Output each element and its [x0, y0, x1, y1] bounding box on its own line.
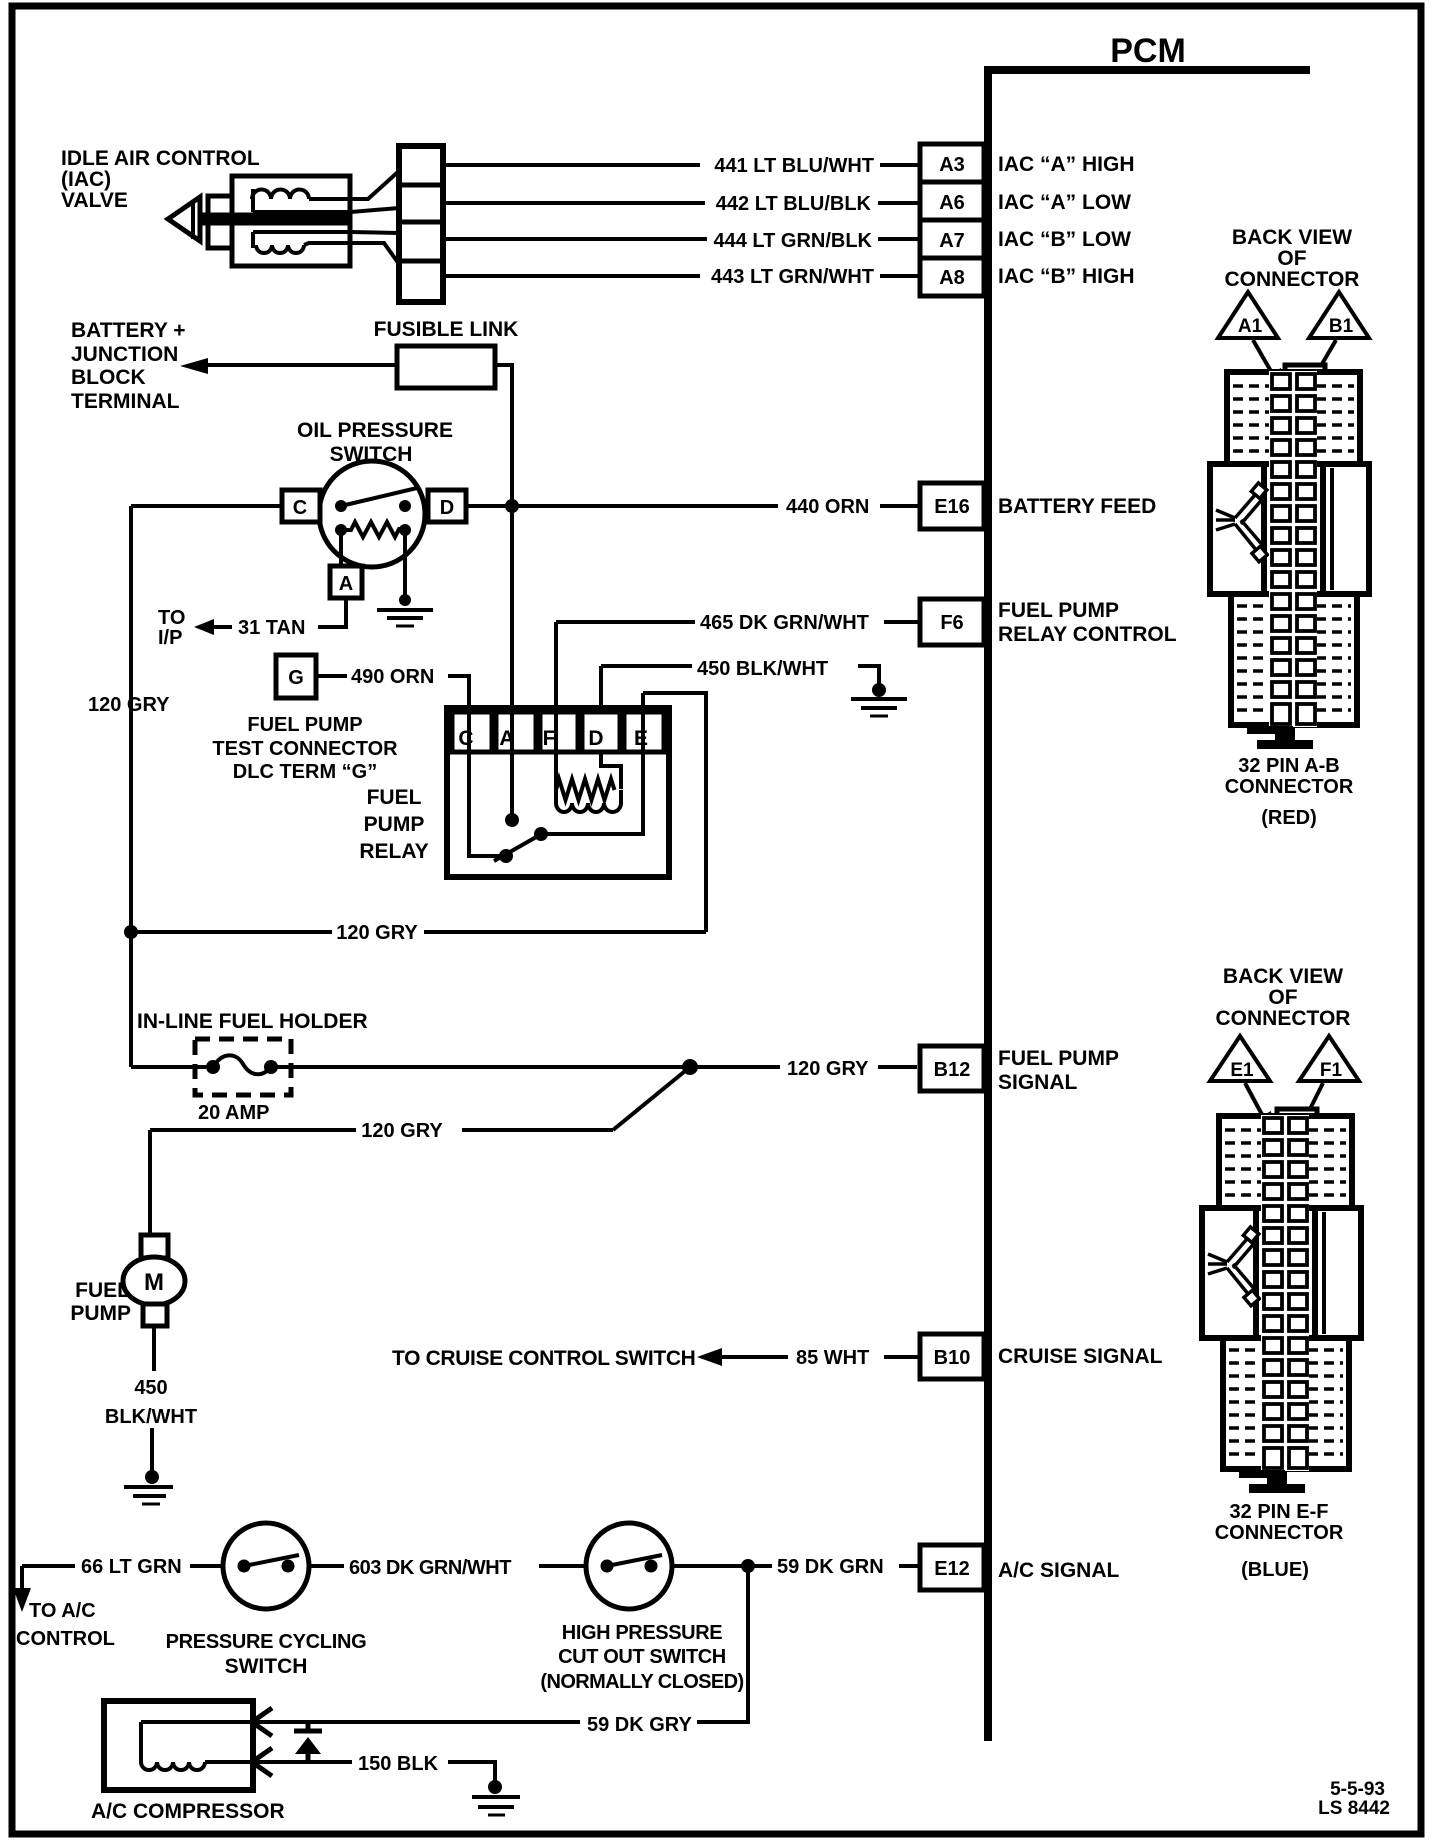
battery junction label — [71, 319, 186, 413]
compressor arrowhead upper — [252, 1708, 272, 1736]
wire 603 DK GRN/WHT — [309, 1564, 586, 1568]
svg-text:HIGH PRESSURE: HIGH PRESSURE — [562, 1622, 722, 1644]
wire A to 31 TAN — [318, 598, 346, 627]
svg-text:OF: OF — [1268, 986, 1297, 1009]
svg-text:CONNECTOR: CONNECTOR — [1225, 776, 1354, 798]
callout triangle B1 — [1309, 292, 1369, 338]
svg-text:120 GRY: 120 GRY — [361, 1120, 443, 1142]
svg-text:BATTERY FEED: BATTERY FEED — [998, 495, 1156, 518]
wire body to connector cell3 — [253, 232, 399, 248]
svg-text:D: D — [588, 727, 603, 750]
svg-text:59 DK GRY: 59 DK GRY — [587, 1714, 693, 1736]
svg-text:5-5-93: 5-5-93 — [1330, 1779, 1385, 1800]
callout triangle E1 — [1210, 1036, 1270, 1081]
svg-text:TERMINAL: TERMINAL — [71, 390, 180, 413]
wire 444 — [443, 237, 920, 241]
svg-text:BLOCK: BLOCK — [71, 366, 146, 389]
svg-text:443 LT GRN/WHT: 443 LT GRN/WHT — [711, 266, 874, 288]
svg-text:D: D — [440, 497, 454, 519]
svg-text:440 ORN: 440 ORN — [786, 496, 869, 518]
relay terminal A — [496, 712, 536, 752]
fuse element — [206, 1055, 278, 1074]
svg-text:RELAY: RELAY — [359, 840, 428, 863]
svg-text:450: 450 — [134, 1377, 167, 1399]
svg-text:B12: B12 — [934, 1059, 971, 1081]
wire 443 — [443, 274, 920, 278]
IAC valve pintle cone — [168, 197, 200, 241]
label high pressure cut out switch — [540, 1622, 743, 1693]
high pressure cut out switch — [586, 1523, 672, 1609]
wire 120 GRY to fuel pump — [150, 1130, 613, 1235]
arrow A1 to pin — [1253, 340, 1283, 393]
wire A into relay — [510, 506, 514, 820]
svg-text:A3: A3 — [939, 154, 965, 176]
wire 59 DK GRN to E12 — [899, 1564, 920, 1568]
svg-text:IN-LINE FUEL HOLDER: IN-LINE FUEL HOLDER — [137, 1010, 368, 1033]
wire 440 ORN — [466, 504, 920, 508]
svg-text:120 GRY: 120 GRY — [787, 1058, 869, 1080]
label fuel pump test connector — [212, 714, 398, 783]
svg-text:VALVE: VALVE — [61, 189, 128, 212]
svg-text:SIGNAL: SIGNAL — [998, 1071, 1078, 1094]
wire to pressure cycling switch — [190, 1564, 223, 1568]
wire 66 LT GRN with down arrow — [13, 1566, 75, 1612]
in-line fuel holder dashed box — [195, 1039, 291, 1095]
svg-text:FUEL PUMP: FUEL PUMP — [998, 1047, 1119, 1070]
left rail 120 GRY — [129, 506, 133, 1067]
node dot left rail — [124, 925, 138, 939]
wire 465 into F — [554, 622, 558, 789]
wire to terminal A — [339, 530, 343, 567]
svg-text:TO: TO — [158, 607, 185, 629]
arrow F1 to pin — [1297, 1083, 1323, 1132]
svg-text:I/P: I/P — [158, 627, 182, 649]
oil pressure switch label — [297, 419, 453, 466]
wire 441 — [443, 163, 920, 167]
relay terminal F — [540, 712, 578, 752]
svg-text:CONNECTOR: CONNECTOR — [1225, 268, 1360, 291]
pin B10 — [920, 1334, 984, 1379]
label fuel pump signal — [998, 1047, 1119, 1094]
svg-text:66 LT GRN: 66 LT GRN — [81, 1556, 182, 1578]
fuel pump motor — [123, 1235, 185, 1326]
pin E16 — [920, 483, 984, 529]
svg-text:120 GRY: 120 GRY — [336, 922, 418, 944]
ground 150 BLK — [472, 1780, 520, 1815]
relay terminal E — [624, 712, 664, 752]
svg-text:FUEL PUMP: FUEL PUMP — [998, 599, 1119, 622]
label fuel pump relay control — [998, 599, 1177, 646]
label fuel pump relay — [359, 786, 428, 863]
wire 465 DK GRN/WHT — [556, 620, 920, 624]
wire 490 ORN to relay C — [448, 676, 504, 856]
fusible link box — [397, 346, 495, 388]
wire G to 490 ORN — [316, 674, 347, 678]
IAC connector block — [399, 146, 443, 302]
svg-text:IAC “B” LOW: IAC “B” LOW — [998, 228, 1131, 251]
pressure cycling switch — [223, 1523, 309, 1609]
wire 450 into D — [599, 666, 603, 712]
label 32 pin A-B connector — [1225, 755, 1354, 829]
svg-text:BLK/WHT: BLK/WHT — [105, 1406, 197, 1428]
wire coil A to connector — [309, 171, 399, 199]
date code — [1318, 1779, 1390, 1819]
svg-text:F: F — [543, 727, 556, 750]
wire fusible link to node — [495, 365, 512, 708]
svg-text:CRUISE SIGNAL: CRUISE SIGNAL — [998, 1345, 1163, 1368]
sender resistor — [335, 522, 411, 537]
svg-text:(IAC): (IAC) — [61, 168, 111, 191]
svg-text:TO CRUISE CONTROL SWITCH: TO CRUISE CONTROL SWITCH — [392, 1347, 696, 1370]
svg-text:PUMP: PUMP — [364, 813, 425, 836]
PCM boundary line — [984, 66, 1310, 1741]
wire D to coil — [601, 752, 621, 789]
svg-text:A7: A7 — [939, 230, 965, 252]
label to A/C control — [16, 1600, 115, 1650]
svg-text:31 TAN: 31 TAN — [238, 617, 305, 639]
32 pin A-B connector (red) — [1210, 365, 1369, 749]
pin A7 — [920, 220, 984, 258]
terminal C — [282, 490, 320, 522]
wire main fuel feed — [131, 1065, 690, 1069]
svg-text:PCM: PCM — [1110, 32, 1186, 70]
coil A return wire — [251, 189, 255, 212]
svg-text:IAC “A” HIGH: IAC “A” HIGH — [998, 153, 1135, 176]
svg-text:A/C COMPRESSOR: A/C COMPRESSOR — [91, 1800, 285, 1823]
svg-text:JUNCTION: JUNCTION — [71, 343, 178, 366]
svg-text:M: M — [144, 1269, 164, 1296]
svg-text:B10: B10 — [934, 1347, 971, 1369]
svg-text:CUT OUT SWITCH: CUT OUT SWITCH — [558, 1646, 726, 1668]
svg-text:DLC TERM “G”: DLC TERM “G” — [233, 761, 377, 783]
svg-text:TEST CONNECTOR: TEST CONNECTOR — [212, 738, 398, 760]
wire 120 GRY relay bottom — [131, 930, 706, 934]
svg-text:FUEL: FUEL — [75, 1279, 130, 1302]
wire 442 — [443, 201, 920, 205]
svg-text:A8: A8 — [939, 267, 965, 289]
svg-text:603 DK GRN/WHT: 603 DK GRN/WHT — [349, 1557, 511, 1579]
switch contacts — [335, 488, 417, 512]
IAC valve body — [232, 176, 350, 266]
32 pin E-F connector (blue) — [1202, 1109, 1361, 1493]
arrow E1 to pin — [1245, 1083, 1273, 1136]
svg-text:A6: A6 — [939, 192, 965, 214]
node dot fuel signal — [682, 1059, 698, 1075]
svg-text:BACK VIEW: BACK VIEW — [1223, 965, 1343, 988]
wire E to blade — [541, 752, 643, 834]
svg-text:490 ORN: 490 ORN — [351, 666, 434, 688]
svg-text:FUEL: FUEL — [367, 786, 422, 809]
IAC shaft — [201, 213, 348, 226]
arrow to I/P — [194, 619, 232, 635]
compressor arrowhead lower — [252, 1748, 272, 1776]
svg-text:(NORMALLY CLOSED): (NORMALLY CLOSED) — [540, 1671, 743, 1693]
wire E entry — [643, 693, 706, 932]
svg-text:E1: E1 — [1230, 1060, 1254, 1081]
oil pressure switch body — [319, 461, 425, 567]
wire node down to 59 DK GRY — [697, 1566, 748, 1722]
svg-text:85 WHT: 85 WHT — [796, 1347, 869, 1369]
wire 450 BLK/WHT — [601, 666, 879, 688]
callout triangle A1 — [1218, 292, 1278, 338]
svg-text:59 DK GRN: 59 DK GRN — [777, 1556, 884, 1578]
label back view of connector (A-B) — [1225, 226, 1360, 291]
pin A3 — [920, 144, 984, 182]
svg-text:444 LT GRN/BLK: 444 LT GRN/BLK — [713, 230, 872, 252]
relay terminal D — [582, 712, 620, 752]
svg-text:OF: OF — [1277, 247, 1306, 270]
IAC coil A — [252, 190, 309, 200]
terminal D — [428, 490, 466, 522]
svg-text:TO A/C: TO A/C — [29, 1600, 96, 1622]
relay contact A dot — [505, 813, 519, 827]
svg-text:F1: F1 — [1320, 1060, 1343, 1081]
svg-text:SWITCH: SWITCH — [225, 1655, 308, 1678]
svg-text:CONNECTOR: CONNECTOR — [1216, 1007, 1351, 1030]
svg-text:120 GRY: 120 GRY — [88, 694, 170, 716]
node dot battery feed — [505, 499, 519, 513]
compressor clutch coil — [141, 1722, 252, 1770]
label 32 pin E-F connector — [1215, 1501, 1344, 1581]
ground fuel pump — [124, 1470, 173, 1504]
svg-text:PRESSURE CYCLING: PRESSURE CYCLING — [166, 1631, 367, 1653]
svg-text:CONTROL: CONTROL — [16, 1628, 115, 1650]
svg-text:OIL PRESSURE: OIL PRESSURE — [297, 419, 453, 442]
wire to A/C signal node — [672, 1564, 772, 1568]
pin A8 — [920, 258, 984, 296]
svg-text:450 BLK/WHT: 450 BLK/WHT — [697, 658, 828, 680]
svg-text:LS 8442: LS 8442 — [1318, 1798, 1390, 1819]
label 450 BLK/WHT pump — [105, 1377, 197, 1428]
svg-text:BATTERY +: BATTERY + — [71, 319, 186, 342]
wire 150 BLK — [252, 1762, 495, 1787]
svg-text:20 AMP: 20 AMP — [198, 1102, 270, 1124]
pin B12 — [920, 1046, 984, 1091]
svg-text:A/C SIGNAL: A/C SIGNAL — [998, 1559, 1120, 1582]
svg-text:PUMP: PUMP — [70, 1302, 131, 1325]
svg-text:G: G — [288, 667, 304, 689]
label pressure cycling switch — [166, 1631, 367, 1678]
fuel pump test connector G box — [276, 655, 316, 698]
IAC valve label — [61, 147, 260, 212]
svg-text:442 LT BLU/BLK: 442 LT BLU/BLK — [716, 193, 872, 215]
wire 59 DK GRY to compressor — [252, 1720, 580, 1724]
svg-text:A1: A1 — [1238, 316, 1263, 337]
wire coil B to connector — [304, 243, 399, 264]
label fuel pump — [70, 1279, 131, 1325]
svg-text:465 DK GRN/WHT: 465 DK GRN/WHT — [700, 612, 869, 634]
callout triangle F1 — [1299, 1036, 1359, 1081]
svg-text:B1: B1 — [1329, 316, 1354, 337]
svg-text:(BLUE): (BLUE) — [1241, 1559, 1309, 1581]
arrow B1 to pin — [1308, 340, 1336, 389]
svg-text:IAC “A” LOW: IAC “A” LOW — [998, 191, 1131, 214]
wire to battery with arrow — [180, 358, 397, 374]
svg-text:RELAY CONTROL: RELAY CONTROL — [998, 623, 1177, 646]
label back view of connector (E-F) — [1216, 965, 1351, 1030]
svg-text:C: C — [458, 727, 473, 750]
svg-text:FUEL PUMP: FUEL PUMP — [247, 714, 362, 736]
IAC coil B — [256, 245, 304, 253]
svg-text:32 PIN E-F: 32 PIN E-F — [1230, 1501, 1329, 1523]
label TO I/P — [158, 607, 185, 649]
ground 450 — [851, 683, 907, 716]
svg-text:A: A — [339, 573, 353, 595]
pin E12 — [920, 1545, 984, 1590]
svg-text:E12: E12 — [934, 1558, 970, 1580]
svg-text:BACK VIEW: BACK VIEW — [1232, 226, 1352, 249]
wire diagonal to 120 GRY — [613, 1067, 690, 1130]
svg-text:CONNECTOR: CONNECTOR — [1215, 1522, 1344, 1544]
arrow cruise — [697, 1348, 788, 1366]
diode — [294, 1722, 322, 1762]
svg-text:F6: F6 — [940, 612, 963, 634]
svg-text:441 LT BLU/WHT: 441 LT BLU/WHT — [714, 155, 874, 177]
A/C compressor box — [104, 1701, 253, 1790]
fuel pump relay box — [447, 708, 669, 877]
wire resistor to ground — [403, 530, 407, 600]
svg-text:IAC “B” HIGH: IAC “B” HIGH — [998, 265, 1135, 288]
wire C to left rail — [131, 504, 284, 508]
svg-text:E16: E16 — [934, 496, 970, 518]
IAC valve collar — [208, 196, 234, 248]
svg-text:(RED): (RED) — [1261, 807, 1317, 829]
pin A6 — [920, 182, 984, 220]
wire 120 GRY to B12 — [690, 1065, 917, 1069]
wire pump to ground — [152, 1326, 154, 1477]
relay switch blade — [494, 827, 548, 863]
svg-text:IDLE AIR CONTROL: IDLE AIR CONTROL — [61, 147, 260, 170]
wire 85 WHT — [884, 1355, 920, 1359]
svg-text:C: C — [293, 497, 307, 519]
svg-text:32 PIN A-B: 32 PIN A-B — [1238, 755, 1340, 777]
svg-text:150 BLK: 150 BLK — [358, 1753, 439, 1775]
svg-text:FUSIBLE LINK: FUSIBLE LINK — [374, 318, 519, 341]
node dot A/C signal — [741, 1559, 755, 1573]
wire body to connector cell2 — [253, 208, 399, 212]
relay coil — [556, 752, 621, 812]
pin F6 — [920, 599, 984, 645]
terminal A — [330, 566, 362, 598]
ground oil switch — [377, 594, 433, 626]
relay terminal C — [452, 712, 492, 752]
